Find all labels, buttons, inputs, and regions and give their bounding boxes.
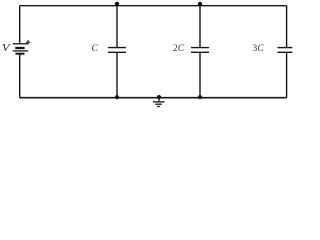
svg-text:V: V [2, 42, 12, 53]
svg-text:3C: 3C [253, 44, 265, 54]
svg-text:2C: 2C [173, 44, 185, 54]
svg-text:C: C [92, 44, 99, 54]
